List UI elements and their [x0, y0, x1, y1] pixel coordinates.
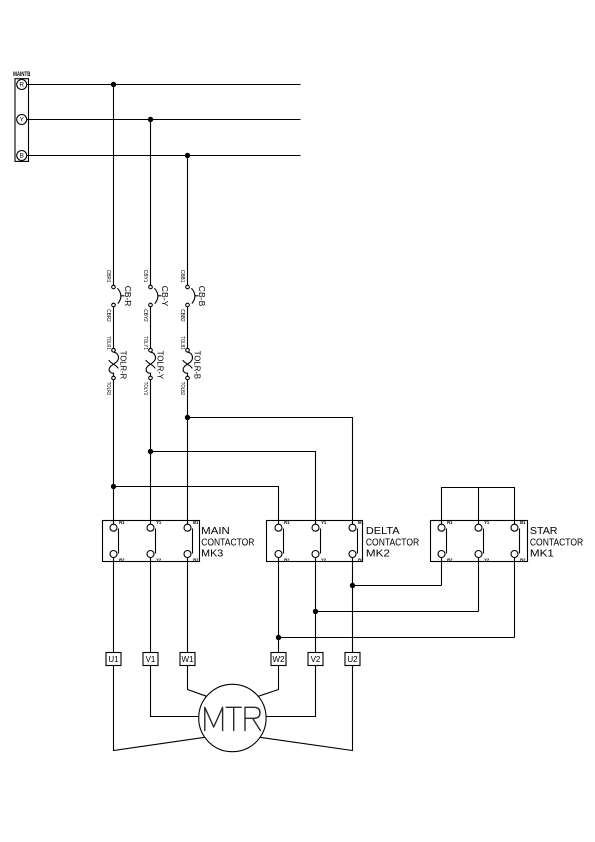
svg-text:DELTA: DELTA — [366, 526, 400, 537]
svg-text:CBB2: CBB2 — [179, 309, 185, 322]
svg-text:CBB1: CBB1 — [179, 270, 185, 283]
svg-text:B2: B2 — [358, 557, 364, 562]
svg-text:Y: Y — [20, 117, 25, 124]
svg-text:W2: W2 — [273, 655, 286, 664]
svg-text:V1: V1 — [146, 655, 156, 664]
svg-text:U2: U2 — [347, 655, 358, 664]
svg-text:TOLY2: TOLY2 — [142, 382, 148, 396]
svg-text:V2: V2 — [311, 655, 321, 664]
svg-text:R2: R2 — [447, 557, 453, 562]
svg-text:W1: W1 — [182, 655, 195, 664]
svg-text:B: B — [20, 153, 24, 160]
svg-text:TOLR-B: TOLR-B — [193, 351, 203, 380]
svg-text:MK2: MK2 — [366, 548, 390, 559]
svg-text:TOLY1: TOLY1 — [142, 336, 148, 350]
svg-text:CBY1: CBY1 — [142, 270, 148, 283]
svg-text:B1: B1 — [358, 520, 364, 525]
svg-text:B1: B1 — [520, 520, 526, 525]
svg-text:CONTACTOR: CONTACTOR — [201, 537, 254, 548]
svg-text:TOLB1: TOLB1 — [179, 336, 185, 350]
svg-text:R: R — [19, 82, 24, 89]
svg-text:Y1: Y1 — [484, 520, 490, 525]
svg-text:MAINTB: MAINTB — [13, 72, 31, 78]
svg-text:MK3: MK3 — [201, 548, 223, 559]
svg-text:B2: B2 — [520, 557, 526, 562]
svg-text:U1: U1 — [108, 655, 119, 664]
svg-text:Y2: Y2 — [321, 557, 327, 562]
svg-text:R1: R1 — [447, 520, 453, 525]
svg-text:MAIN: MAIN — [201, 526, 230, 537]
svg-text:TOLR-R: TOLR-R — [119, 351, 129, 379]
svg-text:B1: B1 — [193, 520, 199, 525]
svg-text:R1: R1 — [284, 520, 290, 525]
svg-text:CONTACTOR: CONTACTOR — [366, 537, 419, 548]
svg-text:Y2: Y2 — [484, 557, 490, 562]
svg-text:TOLR2: TOLR2 — [105, 382, 111, 396]
svg-text:TOLR-Y: TOLR-Y — [156, 351, 166, 380]
svg-text:MK1: MK1 — [530, 548, 554, 559]
svg-text:B2: B2 — [193, 557, 199, 562]
svg-text:CB-Y: CB-Y — [160, 286, 170, 307]
svg-text:CBR2: CBR2 — [105, 309, 111, 322]
svg-text:R2: R2 — [119, 557, 125, 562]
svg-text:TOLB2: TOLB2 — [179, 382, 185, 396]
svg-text:Y1: Y1 — [156, 520, 162, 525]
svg-text:R1: R1 — [119, 520, 125, 525]
svg-text:STAR: STAR — [530, 526, 558, 537]
svg-text:CBY2: CBY2 — [142, 309, 148, 322]
svg-text:Y2: Y2 — [156, 557, 162, 562]
svg-text:TOLR1: TOLR1 — [105, 336, 111, 350]
svg-text:CB-R: CB-R — [123, 286, 133, 307]
svg-text:CONTACTOR: CONTACTOR — [530, 537, 583, 548]
svg-text:CB-B: CB-B — [197, 286, 207, 307]
svg-text:CBR1: CBR1 — [105, 270, 111, 283]
svg-text:R2: R2 — [284, 557, 290, 562]
svg-text:Y1: Y1 — [321, 520, 327, 525]
